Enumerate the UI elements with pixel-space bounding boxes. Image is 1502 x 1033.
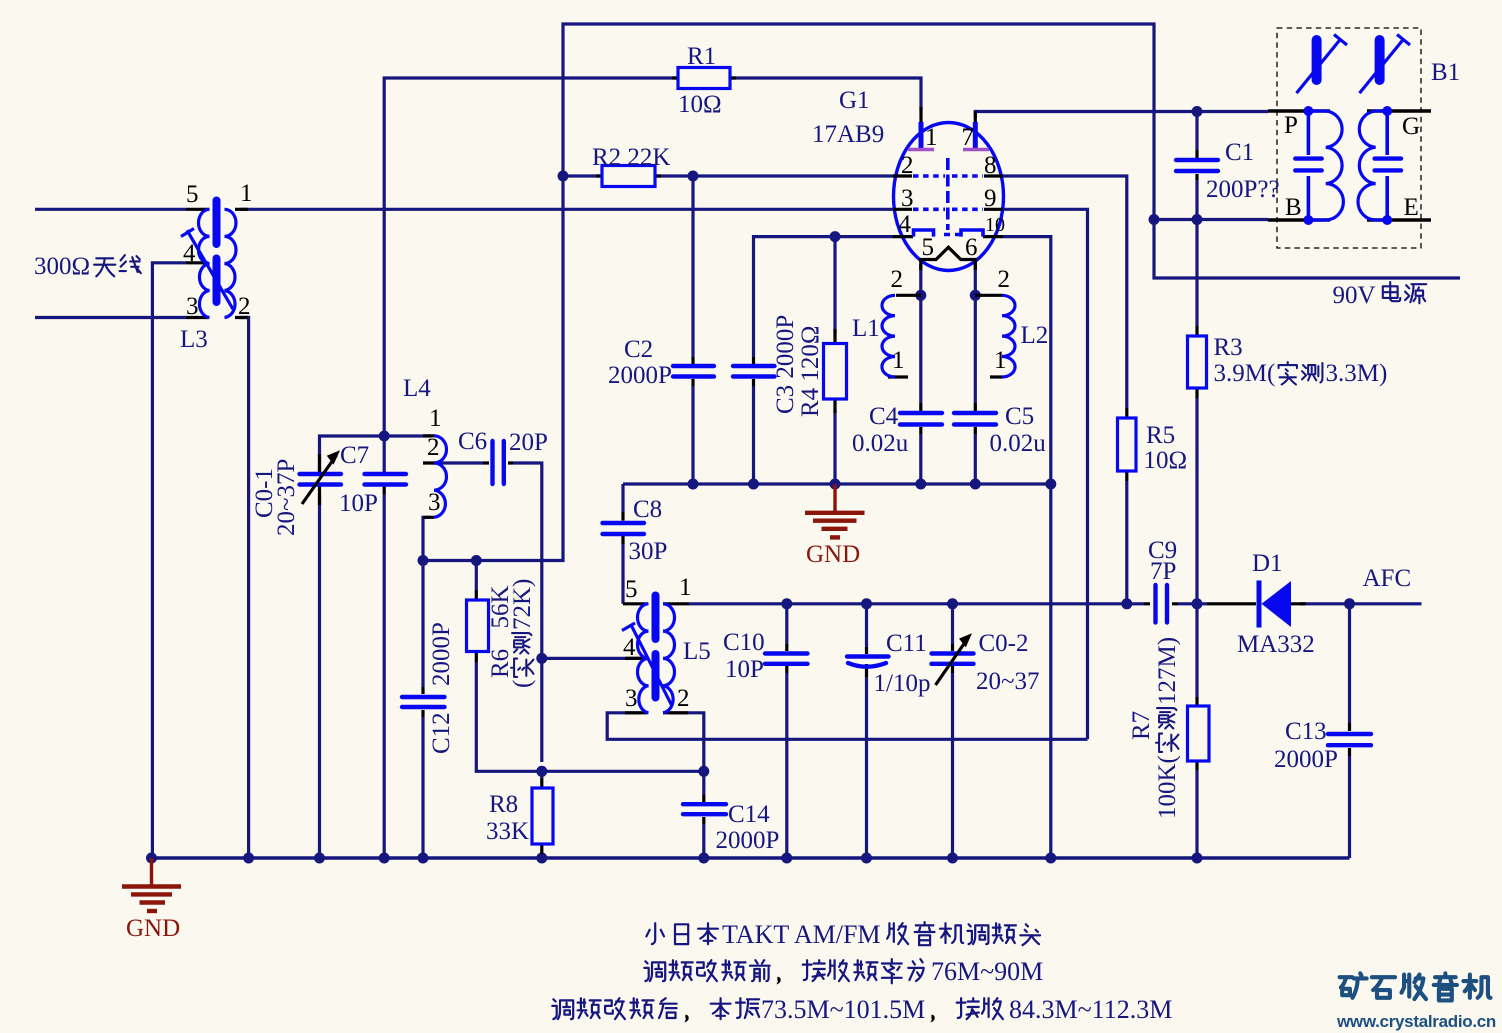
wire C1 bottom to B (1195, 180, 1198, 220)
svg-text:1: 1 (892, 347, 905, 374)
svg-text:7: 7 (962, 124, 975, 151)
svg-text:2: 2 (238, 293, 251, 320)
svg-text:1: 1 (429, 405, 442, 432)
svg-text:5: 5 (922, 234, 935, 261)
wire C1 branch top (1195, 112, 1198, 151)
wire tube pin9 down (1003, 209, 1088, 739)
wire L5 pin1 osc row (689, 602, 1144, 605)
svg-text:2000P: 2000P (716, 827, 780, 854)
logo crystalradio (1340, 973, 1491, 1000)
svg-text:30P: 30P (629, 538, 668, 565)
wire C4 to bus (919, 434, 922, 484)
wire R7 (1195, 604, 1198, 697)
resistor R7 (1188, 697, 1210, 770)
svg-text:C3 2000P: C3 2000P (772, 315, 799, 414)
svg-text:C1: C1 (1225, 139, 1254, 166)
svg-text:2: 2 (901, 152, 914, 179)
svg-text:4: 4 (623, 634, 636, 661)
wire R4 bottom (833, 409, 836, 484)
label R7 value (rotated) (1128, 711, 1155, 740)
wire R8 to ground (540, 854, 543, 858)
wire L3 pin1 to tube pin3 (240, 208, 894, 211)
label 90V supply (1333, 282, 1427, 309)
wire C12 branch (421, 561, 424, 688)
svg-text:3: 3 (625, 685, 638, 712)
svg-text:R1: R1 (687, 43, 716, 70)
wire C10 branch (785, 604, 788, 644)
capacitor C11 (847, 647, 889, 677)
wire tube pin10 down (1003, 237, 1051, 858)
svg-text:B: B (1285, 194, 1302, 221)
wire tube pin4 row (754, 237, 895, 357)
svg-text:R2 22K: R2 22K (592, 144, 670, 171)
svg-text:G: G (1402, 113, 1420, 140)
wire C7 top (383, 436, 386, 474)
wire C13 branch (1348, 604, 1351, 723)
svg-text:L5: L5 (683, 638, 711, 665)
wire C6 to R8 line (513, 463, 542, 762)
svg-text:2000P: 2000P (1274, 746, 1338, 773)
wire R3 top (1195, 220, 1198, 327)
svg-text:C0-2: C0-2 (979, 630, 1029, 657)
wire C11 branch (865, 604, 868, 647)
resistor R5 (1118, 408, 1137, 481)
svg-text:C11: C11 (886, 630, 927, 657)
svg-text:L1: L1 (852, 315, 880, 342)
capacitor C1 (1176, 150, 1218, 180)
wire R1 row (384, 78, 678, 436)
svg-text:P: P (1284, 112, 1298, 139)
svg-text:3: 3 (428, 489, 441, 516)
svg-text:GND: GND (126, 915, 180, 942)
capacitor C10 (765, 644, 808, 673)
caption line 2 (644, 957, 1043, 986)
svg-text:10Ω: 10Ω (1144, 447, 1188, 474)
vacuum tube G1 17AB9 (893, 107, 1004, 271)
svg-text:B1: B1 (1431, 59, 1460, 86)
wire ground side bus (623, 482, 1051, 485)
wire grid row (423, 559, 563, 562)
wire L5 pin3 loop (607, 713, 1087, 740)
svg-text:84.3M~112.3M: 84.3M~112.3M (1009, 995, 1172, 1024)
svg-text:GND: GND (806, 541, 860, 568)
svg-text:4: 4 (183, 240, 196, 267)
svg-text:10Ω: 10Ω (678, 91, 722, 118)
svg-text:C13: C13 (1285, 718, 1327, 745)
svg-text:0.02u: 0.02u (852, 430, 909, 457)
svg-text:6: 6 (965, 234, 978, 261)
svg-text:20~37: 20~37 (976, 668, 1040, 695)
wire C2 to bus (691, 386, 694, 484)
label C12 value (rotated) (428, 712, 455, 754)
svg-text:2000P: 2000P (608, 362, 672, 389)
svg-text:8: 8 (984, 152, 997, 179)
wire R1 to tube pin1 (730, 78, 921, 110)
svg-text:9: 9 (984, 185, 997, 212)
wire C12 to ground (421, 717, 424, 858)
inductor L5 (oscillator transformer) (622, 596, 689, 713)
svg-text:C4: C4 (869, 403, 899, 430)
svg-text:3: 3 (186, 293, 199, 320)
inductor L2 (975, 295, 1015, 377)
svg-text:1: 1 (994, 347, 1007, 374)
svg-text:10P: 10P (725, 656, 764, 683)
svg-text:10: 10 (985, 214, 1005, 236)
capacitor C0-1 (tuning gang section) (300, 450, 342, 505)
wire L4 pin2 to C6 (431, 461, 483, 464)
svg-text:www.crystalradio.cn: www.crystalradio.cn (1336, 1012, 1496, 1031)
inductor L3 (antenna transformer) (181, 201, 248, 318)
capacitor C13 (1328, 723, 1371, 756)
svg-text:4: 4 (899, 211, 912, 238)
wire C0-1 to ground (318, 494, 321, 858)
label C3 value (rotated) (772, 315, 799, 414)
capacitor C14 (683, 795, 726, 824)
svg-text:1: 1 (240, 180, 253, 207)
svg-text:100K(: 100K( (1154, 755, 1181, 819)
wire C8 branch (621, 484, 624, 512)
ground symbol (left bottom) (122, 858, 181, 911)
wire tube pin8 to R5 (1003, 176, 1127, 408)
label R6 value (rotated) (487, 649, 514, 678)
wire C14 to ground (702, 824, 705, 858)
svg-text:C2: C2 (624, 336, 653, 363)
svg-text:1: 1 (925, 124, 938, 151)
resistor R1 (672, 68, 736, 89)
svg-text:C6: C6 (458, 428, 487, 455)
svg-text:90V: 90V (1333, 282, 1376, 309)
svg-text:20P: 20P (509, 429, 548, 456)
label antenna 300ohm (34, 253, 141, 280)
wire L4 pin1 row (320, 436, 432, 474)
ground symbol (center) (805, 484, 865, 537)
resistor R2 (596, 166, 661, 187)
svg-text:3: 3 (901, 185, 914, 212)
wire antenna bottom (35, 316, 186, 319)
svg-text:2: 2 (998, 266, 1011, 293)
wire B row (1154, 218, 1268, 221)
wire L4 pin3 down (423, 517, 431, 560)
svg-text:5: 5 (186, 181, 199, 208)
wire C3 to bus (752, 386, 755, 484)
svg-text:1/10p: 1/10p (874, 670, 931, 697)
capacitor C6 (483, 441, 513, 484)
wire tube pin6 to L2 (974, 264, 977, 403)
svg-text:2: 2 (677, 685, 690, 712)
wire R6 top (475, 561, 478, 591)
svg-text:3.3M): 3.3M) (1326, 360, 1388, 387)
svg-text:C7: C7 (340, 442, 369, 469)
caption line 1 (646, 920, 1040, 949)
label C0-1 value (rotated) (251, 468, 278, 518)
svg-text:R3: R3 (1214, 334, 1243, 361)
svg-text:R8: R8 (489, 791, 518, 818)
wire R3 bottom to osc (1195, 398, 1198, 604)
capacitor C8 (603, 512, 645, 544)
capacitor C0-2 (tuning gang section) (932, 633, 974, 685)
wire C9 right to D1 (1178, 602, 1207, 605)
label R4 value (rotated) (797, 325, 824, 417)
wire tube pin7 to P (975, 112, 1268, 119)
wire C5 to bus (974, 434, 977, 484)
wire R6 bottom row (476, 662, 704, 771)
svg-text:20~37P: 20~37P (273, 459, 300, 536)
wire L5 pin2 down (670, 713, 704, 795)
wire R2 left (563, 174, 602, 177)
svg-text:3.9M(: 3.9M( (1214, 360, 1276, 387)
svg-text:33K: 33K (486, 818, 529, 845)
battery/IF-can module B1 (1268, 28, 1431, 248)
svg-text:2000P: 2000P (428, 622, 455, 686)
resistor R8 (532, 778, 553, 854)
svg-text:R6: R6 (487, 649, 514, 678)
capacitor C12 (402, 687, 445, 717)
wire top loop (563, 24, 1154, 562)
svg-text:L2: L2 (1021, 322, 1049, 349)
svg-text:C12: C12 (428, 712, 455, 754)
svg-text:5: 5 (625, 576, 638, 603)
svg-text:AFC: AFC (1363, 565, 1412, 592)
inductor L4 (423, 436, 447, 518)
wire R7 bottom (1195, 770, 1198, 858)
svg-text:2: 2 (891, 266, 904, 293)
wire C7 to ground (383, 494, 386, 858)
svg-text:C14: C14 (728, 801, 770, 828)
wire tube pin5 to L1 (919, 264, 922, 403)
svg-text:1: 1 (679, 574, 692, 601)
caption line 3 (552, 995, 1172, 1024)
svg-text:TAKT AM/FM: TAKT AM/FM (722, 920, 881, 949)
svg-text:72K): 72K) (509, 579, 536, 630)
wire 90V (1154, 220, 1460, 279)
capacitor C3 (733, 357, 775, 386)
wire L3 pin4 to ground (152, 263, 186, 858)
capacitor C7 (365, 472, 407, 494)
svg-text:7P: 7P (1150, 558, 1176, 585)
resistor R4 (824, 329, 847, 413)
svg-text:C10: C10 (723, 629, 765, 656)
capacitor C2 (673, 357, 714, 386)
svg-text:73.5M~101.5M: 73.5M~101.5M (761, 995, 925, 1024)
svg-text:L4: L4 (403, 375, 431, 402)
svg-text:R7: R7 (1128, 711, 1155, 740)
svg-text:G1: G1 (839, 87, 870, 114)
diode D1 MA332 (1207, 581, 1306, 628)
wire L5 pin4 row (542, 657, 641, 660)
resistor R6 (467, 590, 489, 662)
wire R5 bottom (1125, 481, 1128, 604)
svg-text:2: 2 (427, 434, 440, 461)
wire C2 branch (691, 176, 694, 357)
wire C13 to ground (1348, 756, 1351, 858)
wire C0-2 to ground (951, 673, 954, 858)
svg-text:17AB9: 17AB9 (812, 121, 884, 148)
wire D1 to AFC (1300, 602, 1422, 605)
wire C0-2 branch (951, 604, 954, 644)
wire R4 branch (833, 237, 836, 334)
wire L3 pin2 down (240, 318, 249, 859)
inductor L1 (882, 295, 921, 377)
resistor R3 (1188, 326, 1207, 398)
wire antenna top (35, 208, 186, 211)
svg-text:C8: C8 (633, 496, 662, 523)
svg-text:(: ( (509, 680, 536, 688)
svg-text:R4 120Ω: R4 120Ω (797, 325, 824, 417)
svg-text:R5: R5 (1146, 422, 1175, 449)
capacitor C5 (954, 403, 996, 434)
wire C11 to ground (865, 677, 868, 858)
wire ground bus (152, 856, 1350, 860)
svg-text:200P??: 200P?? (1206, 176, 1280, 203)
capacitor C9 (1144, 585, 1178, 623)
wire C8 to L5 pin5 (621, 543, 624, 604)
svg-text:L3: L3 (180, 326, 208, 353)
wire R2 right to tube pin2 (655, 174, 894, 177)
wire C10 to ground (785, 673, 788, 858)
svg-text:0.02u: 0.02u (990, 430, 1047, 457)
svg-text:127M): 127M) (1154, 637, 1181, 705)
svg-text:300Ω: 300Ω (34, 253, 90, 280)
svg-text:E: E (1404, 194, 1419, 221)
svg-text:10P: 10P (339, 490, 378, 517)
capacitor C4 (900, 403, 942, 434)
svg-text:76M~90M: 76M~90M (931, 957, 1043, 986)
svg-text:D1: D1 (1252, 550, 1283, 577)
svg-text:MA332: MA332 (1237, 631, 1315, 658)
svg-text:C5: C5 (1005, 403, 1034, 430)
wire R8 top (540, 771, 543, 778)
